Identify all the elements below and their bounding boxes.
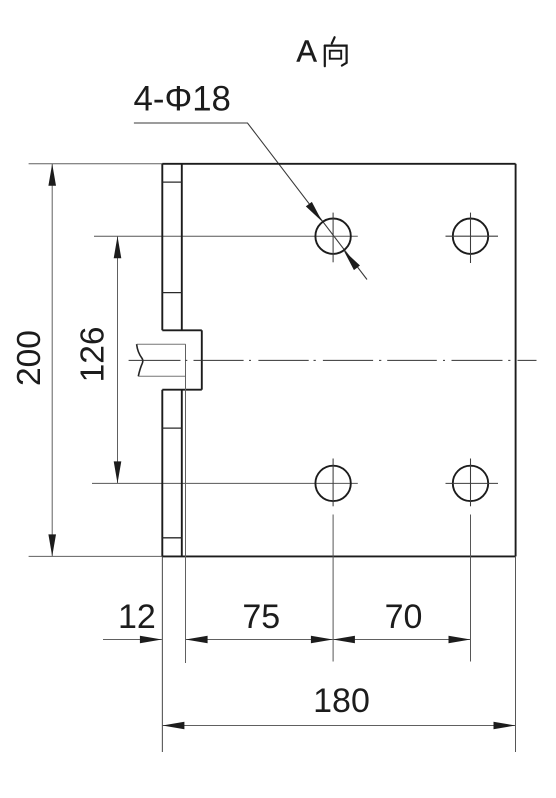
svg-text:126: 126 — [75, 326, 112, 382]
svg-text:A: A — [297, 35, 318, 69]
title A向 : hanzi 向 drawn as strokes — [325, 37, 347, 66]
hole 2 horizontal crosshair — [446, 235, 499, 237]
extension line upper hole row (for 126) — [94, 235, 358, 237]
svg-text:75: 75 — [242, 598, 280, 636]
hole 2 top-right — [453, 219, 488, 254]
hole 3 bottom-left — [315, 466, 350, 501]
centre line (dash-dot) — [129, 359, 537, 361]
hole 4 horizontal crosshair — [446, 482, 499, 484]
plate top edge — [162, 163, 515, 165]
dimension 75 line — [186, 639, 333, 641]
leader arrow upper (points down-right at hole edge) — [306, 202, 325, 224]
extension line bottom-left (for 200) — [29, 555, 163, 557]
flange tick 2 — [162, 292, 182, 294]
beam bottom edge — [139, 375, 186, 377]
leader line for 4-Φ18 — [134, 123, 367, 280]
dimension 75 arrow left (points left, tip at 185.6) — [186, 636, 208, 644]
leader arrow lower (points up-left at hole edge) — [341, 248, 360, 270]
plate bottom edge — [162, 555, 515, 557]
extension line left bottom (from flange left, for 12/180) — [161, 556, 163, 752]
hole 1 vertical crosshair — [332, 213, 334, 263]
arrow 126 top — [114, 236, 122, 258]
hole 3 extension line down — [332, 515, 334, 662]
arrow 200 bottom — [48, 534, 56, 556]
dimension 12 arrow (points right) — [140, 636, 162, 644]
boss bottom edge — [162, 389, 202, 391]
flange tick 4 — [162, 537, 182, 539]
boss top edge — [162, 329, 202, 331]
dimension 12 tail line left — [103, 639, 162, 641]
plate right edge — [515, 164, 517, 557]
svg-text:180: 180 — [313, 682, 370, 720]
dimension 75 arrow right — [311, 636, 333, 644]
flange tick 1 — [162, 181, 182, 183]
svg-text:12: 12 — [118, 598, 156, 636]
arrow 126 bottom — [114, 461, 122, 483]
dimension line 200 — [51, 164, 53, 557]
hole 4 vertical crosshair — [470, 459, 472, 507]
dimension 70 arrow right — [449, 636, 471, 644]
beam break line — [137, 344, 143, 376]
flange inner line lower — [181, 390, 183, 557]
svg-text:70: 70 — [385, 598, 423, 636]
dimension 70 line — [333, 639, 471, 641]
dimension 70 arrow left — [333, 636, 355, 644]
dimension 180 arrow left — [162, 722, 184, 730]
dimension 180 arrow right — [494, 722, 516, 730]
flange left edge upper — [161, 164, 163, 330]
hole 2 vertical crosshair — [470, 213, 472, 263]
svg-text:4-Φ18: 4-Φ18 — [134, 80, 231, 119]
extension line from beam right edge down (for 12/75) — [185, 344, 187, 663]
hole 1 top-left — [315, 219, 350, 254]
dimension line 126 — [117, 236, 119, 483]
flange left edge lower — [161, 390, 163, 557]
extension line top-left (for 200) — [29, 163, 163, 165]
hole 4 bottom-right — [453, 466, 488, 501]
beam top edge — [137, 343, 186, 345]
dimension 180 line — [162, 725, 515, 727]
flange inner line upper — [181, 164, 183, 330]
hole 3 vertical crosshair — [332, 459, 334, 507]
extension line right bottom (from plate right corner, for 180) — [515, 556, 517, 752]
extension line lower hole row (for 126) — [92, 482, 358, 484]
flange tick 3 — [162, 427, 182, 429]
arrow 200 top — [48, 164, 56, 186]
hole 4 extension line down — [470, 515, 472, 662]
boss right edge — [201, 330, 203, 389]
svg-text:200: 200 — [11, 330, 48, 386]
